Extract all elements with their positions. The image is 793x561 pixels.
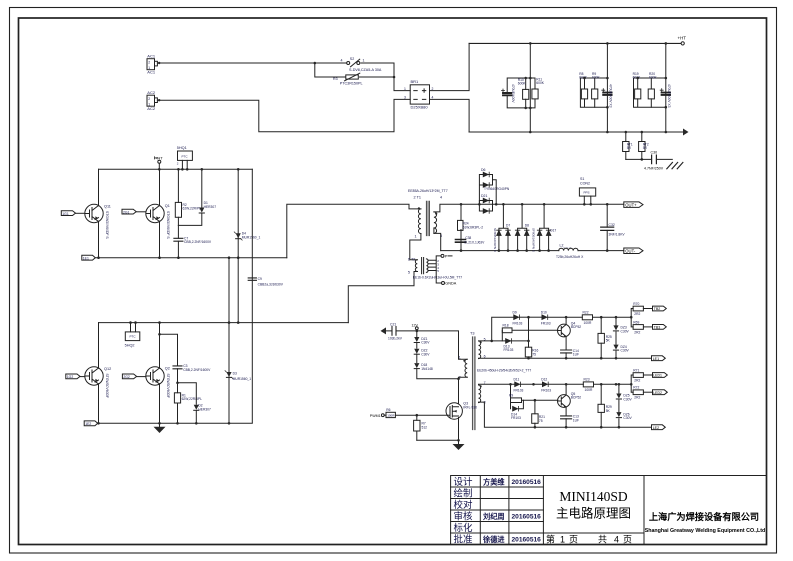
svg-text:512: 512 (422, 425, 428, 429)
thermal switch HQ1 (177, 146, 193, 170)
svg-text:FR103: FR103 (504, 348, 514, 352)
svg-text:L2_ _ _: L2_ _ _ (560, 244, 572, 248)
svg-text:TB3: TB3 (654, 326, 661, 330)
svg-text:D17: D17 (550, 229, 556, 233)
svg-text:1N4148: 1N4148 (421, 367, 433, 371)
port flag LED1 (653, 373, 668, 378)
net flag +HT bus (678, 36, 687, 46)
resistor R9 (592, 72, 601, 107)
bus- bottom (469, 131, 683, 133)
title block row labels (454, 476, 474, 546)
svg-text:审核: 审核 (454, 511, 474, 523)
svg-text:Q11: Q11 (104, 205, 111, 209)
port flag 1E2 (84, 421, 98, 426)
svg-text:S2: S2 (350, 57, 354, 61)
svg-text:页: 页 (623, 535, 632, 545)
svg-text:IRFL-530: IRFL-530 (463, 405, 477, 409)
capacitor C9 (248, 277, 283, 286)
svg-text:FR103: FR103 (541, 321, 551, 325)
wire T3 pin7 row (479, 383, 515, 385)
svg-text:R18: R18 (503, 324, 509, 328)
svg-text:D8: D8 (525, 224, 529, 228)
svg-text:C9: C9 (258, 277, 262, 281)
svg-text:C32: C32 (609, 223, 615, 227)
svg-text:600K: 600K (536, 81, 545, 85)
wire Q2 emitter (159, 384, 161, 424)
zener DZ2 (414, 343, 430, 357)
svg-text:5: 5 (437, 269, 439, 273)
capacitor C14 (561, 337, 579, 359)
node bank1 (524, 42, 531, 133)
port flag LED2 (653, 390, 668, 395)
capacitor C29 group3 (660, 84, 671, 108)
svg-text:R70: R70 (633, 302, 639, 306)
svg-text:C21: C21 (390, 322, 396, 326)
svg-text:R72: R72 (633, 386, 639, 390)
zener DZ4 (613, 345, 629, 360)
capacitor C3 (158, 333, 211, 383)
svg-text:FR103: FR103 (514, 389, 524, 393)
port flag PWM1 (370, 414, 386, 418)
diode D12 (541, 377, 583, 392)
wire D9 row riser (492, 317, 514, 341)
svg-text:D6: D6 (481, 168, 486, 172)
IGBT Q1 (146, 204, 170, 239)
diode D4 MUR1560 (234, 232, 260, 240)
resistor R19 (633, 72, 666, 107)
node rail top (158, 168, 240, 171)
svg-text:C30V: C30V (623, 398, 632, 402)
wire out- bottom (441, 250, 624, 252)
snubber resistor R24 (458, 204, 484, 230)
resistor R69 (633, 320, 652, 334)
rectifier diode pair D8 (515, 204, 535, 252)
node bank3 (636, 42, 667, 133)
svg-text:页: 页 (569, 535, 578, 545)
svg-text:1: 1 (404, 87, 406, 91)
svg-text:2R2: 2R2 (634, 396, 640, 400)
svg-text:PWM1: PWM1 (370, 414, 381, 418)
svg-text:Q1: Q1 (165, 204, 170, 208)
resistor R11 (532, 77, 545, 99)
svg-text:OUT+: OUT+ (625, 202, 637, 207)
svg-text:1: 1 (415, 234, 417, 238)
resistor R16 (525, 316, 538, 359)
mosfet Q3 (446, 401, 477, 419)
wire pin6 row (479, 357, 652, 359)
svg-text:MUR1560_1: MUR1560_1 (242, 236, 261, 240)
svg-text:C30V: C30V (621, 329, 630, 333)
node rail lower (129, 321, 239, 324)
port flag LE1 (652, 356, 666, 361)
diode D1 HER307 (178, 169, 216, 225)
svg-text:OUT-: OUT- (625, 249, 636, 254)
ground power (154, 423, 166, 433)
resistor R21 (532, 399, 545, 427)
svg-text:62W,22R/PL: 62W,22R/PL (183, 207, 202, 211)
resistor R23 (583, 377, 631, 392)
junction node PTC/bridge (393, 76, 396, 79)
wire Q4 collector (565, 317, 567, 324)
resistor R20 (648, 72, 657, 107)
svg-text:1: 1 (363, 59, 365, 63)
node output bottom wire (460, 249, 609, 252)
svg-text:批准: 批准 (454, 534, 474, 546)
port flag OUT+ (624, 202, 643, 208)
svg-text:FR103: FR103 (541, 389, 551, 393)
thermistor R3 PTC (315, 63, 394, 86)
svg-text:P: P (445, 255, 448, 259)
svg-text:T25b,26uH26uH X: T25b,26uH26uH X (556, 255, 584, 259)
diode pair D21 (479, 194, 492, 213)
svg-text:4.7NF/250V: 4.7NF/250V (644, 166, 664, 170)
relay contact S2 (315, 57, 394, 72)
resistor R29 (598, 383, 612, 429)
svg-text:20160516: 20160516 (512, 514, 542, 521)
svg-text:600K: 600K (592, 75, 601, 79)
resistor R70 (630, 302, 653, 327)
svg-text:STGW30V60DF: STGW30V60DF (105, 374, 109, 399)
rectifier diode pair D7 (493, 204, 510, 252)
transformer T2 (408, 257, 462, 279)
svg-text:FR103: FR103 (513, 321, 523, 325)
svg-text:EE85A-26uH/13*2M_TT7: EE85A-26uH/13*2M_TT7 (408, 189, 448, 193)
svg-text:5HQ2: 5HQ2 (125, 343, 135, 347)
bus+ top (469, 42, 681, 44)
svg-text:1: 1 (148, 102, 150, 106)
diode D2 HER307 (176, 382, 211, 424)
wire Q5 collector (565, 384, 567, 395)
svg-text:CL21X,1J63V: CL21X,1J63V (464, 240, 485, 244)
snubber capacitor C38 (456, 230, 486, 251)
svg-text:51W,6R3PL-2: 51W,6R3PL-2 (463, 225, 484, 229)
svg-text:CBB2a,3J3/630V: CBB2a,3J3/630V (258, 282, 284, 286)
svg-text:PTC: PTC (130, 335, 137, 339)
svg-text:校对: 校对 (454, 499, 474, 511)
resistor R10 (518, 78, 529, 108)
svg-text:C30V: C30V (621, 349, 630, 353)
svg-text:AC2: AC2 (147, 106, 156, 111)
svg-text:D25XB80: D25XB80 (411, 104, 429, 109)
rectifier diode pair D17 (537, 204, 556, 250)
node aux rows (527, 357, 617, 429)
svg-text:MINI140SD: MINI140SD (559, 489, 628, 504)
wire clamp line C (228, 258, 230, 424)
net arrow bus- (683, 129, 689, 136)
resistor R6 (386, 408, 448, 418)
capacitor C32 (601, 204, 626, 250)
net flag OP (436, 254, 452, 260)
capacitor C30 (626, 151, 673, 171)
transistor Q4 (558, 321, 582, 337)
svg-text:AC1: AC1 (147, 70, 156, 75)
wire Q2 collector (159, 323, 161, 369)
wire AC2 to bridge pin3 (157, 99, 410, 131)
zener DZ1 (414, 331, 430, 345)
svg-text:D7: D7 (506, 224, 510, 228)
chassis ground (667, 162, 683, 168)
rail lower IGBT emitter (98, 422, 253, 424)
port flag 2G1 (122, 209, 146, 214)
svg-text:FR103: FR103 (511, 416, 521, 420)
zener DZ5 (616, 383, 632, 412)
net arrow aux in (381, 327, 387, 334)
port flag 1G2 (66, 374, 85, 379)
wire Q11 emitter (98, 221, 100, 258)
wire Q3 source (417, 418, 459, 445)
svg-text:470UF/400V X3: 470UF/400V X3 (667, 84, 671, 108)
svg-text:LE1: LE1 (653, 357, 659, 361)
svg-text:1: 1 (560, 535, 565, 545)
node output top wire (460, 203, 609, 206)
rail top IGBT emitter (95, 257, 286, 259)
capacitor C13 (561, 407, 579, 427)
zener D14 (511, 400, 524, 420)
svg-text:主电路原理图: 主电路原理图 (556, 506, 631, 521)
svg-text:HER307: HER307 (204, 205, 217, 209)
capacitor C21 (386, 322, 417, 340)
thermistor RT2 (639, 132, 649, 159)
svg-text:20160516: 20160516 (512, 537, 542, 544)
capacitor C26 group1 (502, 78, 536, 108)
svg-text:PTC3R150PL: PTC3R150PL (340, 82, 363, 86)
svg-text:D11: D11 (514, 377, 520, 381)
svg-text:D9: D9 (513, 310, 517, 314)
wire lower rail to T2 pin5 (348, 272, 417, 323)
svg-text:75: 75 (539, 419, 543, 423)
svg-text:STGW30V60DF S: STGW30V60DF S (166, 211, 170, 239)
svg-text:5HQ1: 5HQ1 (177, 146, 187, 150)
svg-text:刘纪周: 刘纪周 (483, 512, 505, 521)
svg-text:D3: D3 (233, 372, 237, 376)
svg-text:75: 75 (532, 352, 536, 356)
svg-text:5K: 5K (606, 339, 611, 343)
resistor R25 (598, 316, 612, 360)
svg-text:Q12: Q12 (104, 367, 111, 371)
svg-text:徐德进: 徐德进 (482, 535, 505, 544)
svg-text:62W,22R/6PL: 62W,22R/6PL (182, 397, 203, 401)
title block names (482, 478, 505, 545)
diode D9 (513, 310, 529, 325)
resistor R7 (414, 414, 428, 440)
svg-text:C38: C38 (465, 236, 471, 240)
wire Q11 collector (98, 169, 100, 206)
capacitor C7 (174, 225, 212, 257)
svg-text:D10: D10 (541, 310, 547, 314)
svg-text:C30V: C30V (623, 416, 632, 420)
svg-text:第: 第 (546, 534, 555, 545)
svg-text:1UF: 1UF (573, 353, 579, 357)
zener DZ3 (613, 316, 629, 344)
svg-text:R3: R3 (333, 77, 338, 81)
resistor R71 (630, 368, 653, 392)
title block dates (512, 479, 542, 544)
wire mid rail to T1 pin2 (287, 204, 421, 257)
svg-text:5R: 5R (627, 146, 632, 150)
svg-text:TB2: TB2 (654, 307, 661, 311)
svg-text:GNDA: GNDA (445, 282, 456, 286)
svg-text:+HT: +HT (678, 36, 687, 41)
resistor R8 (579, 72, 607, 107)
wire Q1 collector (159, 169, 161, 206)
svg-text:BCP52: BCP52 (571, 396, 582, 400)
svg-text:5K: 5K (606, 409, 611, 413)
svg-text:PTC: PTC (182, 154, 189, 158)
port flag 1E1 (82, 255, 96, 260)
wire T3 pin5 row (479, 340, 492, 342)
svg-text:BR1: BR1 (411, 79, 420, 84)
resistor R9b (509, 383, 558, 403)
svg-text:R9: R9 (509, 393, 513, 397)
svg-text:2 T1: 2 T1 (414, 195, 422, 199)
zener DZ6 (616, 412, 632, 428)
svg-text:CON2: CON2 (580, 181, 590, 185)
connector S1 CON2 (579, 177, 595, 204)
svg-text:4: 4 (614, 535, 619, 545)
inductor L2 (556, 244, 584, 259)
resistor R1 (174, 383, 202, 424)
svg-text:R69: R69 (633, 320, 639, 324)
thermistor RT1 (623, 132, 633, 159)
thermal switch HQ2 (125, 323, 140, 348)
svg-text:D21: D21 (481, 194, 487, 198)
wire 12V to T3 pin1 (417, 331, 467, 359)
node thermistor bus (625, 131, 644, 161)
svg-text:CBB,2.2NF/1600V: CBB,2.2NF/1600V (183, 368, 211, 372)
svg-text:R71: R71 (633, 368, 639, 372)
svg-text:2R2: 2R2 (634, 378, 640, 382)
IGBT Q12 (85, 367, 111, 398)
svg-text:T3: T3 (470, 331, 474, 335)
net flag GNDA (436, 271, 457, 286)
node rail bottom (97, 422, 230, 425)
svg-text:1E2: 1E2 (85, 422, 91, 426)
svg-text:3: 3 (404, 96, 406, 100)
port flag 2G2 (122, 374, 145, 379)
svg-text:2G2: 2G2 (123, 375, 130, 379)
resistor R18 (502, 324, 558, 341)
svg-text:6 T2: 6 T2 (408, 257, 416, 261)
svg-text:LED1: LED1 (653, 374, 662, 378)
connector AC1 (147, 54, 157, 75)
svg-text:1: 1 (459, 355, 461, 359)
svg-text:2R2: 2R2 (634, 330, 640, 334)
svg-text:5: 5 (408, 270, 410, 274)
transformer T3 (459, 331, 532, 429)
node bank2 (583, 42, 609, 133)
svg-text:100R: 100R (387, 414, 395, 418)
svg-text:R6: R6 (386, 408, 390, 412)
wire bridge pin2 to bus+ (430, 43, 470, 90)
svg-text:Q2: Q2 (165, 367, 170, 371)
svg-text:EE20b-450uH-29/54x2b/9/52+2_TT: EE20b-450uH-29/54x2b/9/52+2_TT7 (477, 369, 531, 373)
wire bank line1 (529, 43, 531, 132)
junction node AC1/PTC (314, 62, 317, 65)
port flag TB3 (653, 325, 667, 330)
diode D18 (414, 354, 458, 379)
wire T1 pin1 to T2 pin6 (410, 234, 421, 260)
wire bank line3 (665, 43, 667, 132)
svg-text:4: 4 (440, 196, 442, 200)
resistor R22 (582, 310, 631, 325)
svg-text:标化: 标化 (454, 522, 474, 534)
svg-text:STGW30V60DF: STGW30V60DF (166, 374, 170, 399)
diode D13 (504, 339, 514, 352)
svg-text:1G2: 1G2 (67, 375, 74, 379)
svg-text:R22: R22 (583, 310, 589, 314)
svg-text:12V: 12V (412, 323, 419, 327)
resistor R72 (633, 386, 652, 400)
wire pin5 row continue (492, 340, 529, 342)
wire Q12 collector (98, 323, 100, 369)
svg-text:C30V: C30V (421, 352, 430, 356)
net flag 12V (412, 323, 419, 332)
svg-text:STGW30V60DF S: STGW30V60DF S (105, 211, 109, 239)
svg-text:D12: D12 (541, 377, 547, 381)
svg-text:S-DV8,CZA5-A 30A: S-DV8,CZA5-A 30A (349, 68, 382, 72)
IGBT Q2 (146, 367, 170, 399)
port flag TB2 (653, 306, 667, 311)
svg-text:PPS: PPS (584, 191, 590, 195)
ground Q3 (453, 444, 465, 450)
svg-text:2R2: 2R2 (634, 312, 640, 316)
svg-text:BCP52: BCP52 (571, 325, 582, 329)
svg-text:AC1: AC1 (147, 54, 156, 59)
port flag LE2 (652, 425, 666, 430)
wire pin8 row (479, 402, 652, 427)
svg-text:MUR1560_1: MUR1560_1 (233, 377, 252, 381)
svg-text:共: 共 (598, 535, 607, 545)
wire AC1 to relay node (157, 62, 314, 64)
svg-text:C30V: C30V (421, 341, 430, 345)
port flag OUT- (624, 248, 643, 254)
svg-text:设计: 设计 (454, 476, 474, 488)
diode D11 (514, 377, 542, 392)
resistor R2 (175, 169, 201, 225)
svg-text:2G1: 2G1 (123, 210, 130, 214)
wire T1 pin3 down (434, 228, 441, 251)
svg-text:1UF: 1UF (573, 419, 579, 423)
svg-text:1E1: 1E1 (83, 256, 89, 260)
net flag +HT rail (155, 156, 164, 170)
svg-text:2: 2 (148, 60, 150, 64)
wire T3 pin2 to Q3 drain (459, 377, 468, 404)
svg-text:2: 2 (148, 97, 150, 101)
svg-text:103b,2kV: 103b,2kV (388, 337, 403, 341)
svg-text:R23: R23 (584, 377, 590, 381)
title block grid (451, 476, 767, 545)
svg-text:方美维: 方美维 (483, 478, 505, 487)
svg-text:100R: 100R (585, 388, 594, 392)
svg-text:600K: 600K (518, 81, 527, 85)
wire T1 pin4 to out+ (434, 204, 624, 212)
svg-text:绘制: 绘制 (454, 488, 473, 500)
svg-text:SF80B1A06PN X: SF80B1A06PN X (531, 228, 535, 252)
svg-text:CBB,2.2NF/1600V: CBB,2.2NF/1600V (184, 240, 212, 244)
rail lower IGBT collector (99, 322, 349, 324)
svg-text:470UF/400V: 470UF/400V (511, 84, 515, 103)
svg-text:LE2: LE2 (653, 426, 659, 430)
svg-text:EE16-0.6X2uH/13uH-0U,5M_TT7: EE16-0.6X2uH/13uH-0U,5M_TT7 (413, 276, 462, 280)
wire Q12 emitter (98, 384, 100, 424)
wire bank line2 (606, 43, 608, 132)
svg-text:上海广为焊接设备有限公司: 上海广为焊接设备有限公司 (649, 511, 759, 522)
diode D10 (529, 310, 583, 325)
wire clamp line B (251, 169, 253, 422)
svg-text:HER307: HER307 (198, 407, 211, 411)
svg-text:1: 1 (148, 66, 150, 70)
svg-text:20160516: 20160516 (512, 479, 542, 486)
